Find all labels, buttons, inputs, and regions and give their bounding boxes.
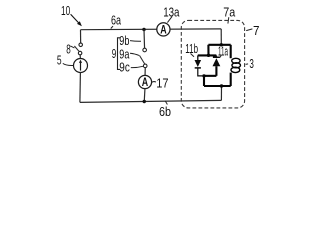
leader 9b [130,40,141,43]
bracket 9 [118,38,121,70]
dashed enclosure box 7 [181,20,244,108]
svg-text:10: 10 [61,3,70,18]
diode 11b cathode bar [195,67,201,69]
coil 3 loop 1 [232,58,240,63]
node D3 [202,74,205,77]
node D4 [220,84,223,87]
leader 9c [131,66,143,67]
module bottom drop [203,76,205,86]
wire bottom 6b [80,100,222,102]
module left drop [207,45,209,56]
svg-text:9c: 9c [119,59,130,74]
wire left vertical upper [80,30,82,43]
coil 3 loop 3 [231,67,240,72]
leader 8 [70,46,74,48]
diode 11a triangle [213,58,221,66]
ammeter 17 [138,75,151,89]
coil 3 loop 2 [232,63,241,68]
leader 11a [220,55,222,57]
leader 11b [191,54,195,57]
svg-text:3: 3 [249,56,254,71]
diode 11a cathode bar [213,56,220,58]
svg-text:6a: 6a [111,12,122,27]
node D1 [220,43,223,46]
svg-text:7a: 7a [223,4,236,19]
coil riser bottom [230,73,232,86]
svg-text:5: 5 [57,52,62,67]
leader 3 [246,63,249,66]
diode pair bottom bar [203,75,217,77]
diode 11b anode lead [197,55,199,60]
svg-text:9: 9 [112,46,117,61]
diode 11b triangle [195,60,202,67]
svg-text:17: 17 [156,75,168,90]
module bottom bar [204,85,231,87]
node bottom junction [143,100,146,103]
switch S8 blade [74,46,79,51]
diode 11a anode lead [215,66,217,76]
ammeter 13a [157,23,170,37]
switch S9 blade 9a [140,56,145,65]
svg-text:6b: 6b [159,104,171,119]
wire top 6a [81,28,222,31]
wire riser to module bottom [220,86,222,100]
diode pair top bar [198,54,217,56]
diode 11b cathode lead [198,68,203,76]
leader 7 [246,29,252,31]
current source 5 arrow [80,62,82,70]
svg-text:7: 7 [253,23,260,38]
module top bar [208,44,230,46]
module right riser [230,45,232,58]
leader 6a [111,26,113,28]
switch S9 terminal top 9b [143,48,147,52]
svg-text:A: A [160,24,166,36]
switch S8 terminal top [79,43,83,47]
wire ammeter 17 to bottom [143,89,146,102]
svg-text:8: 8 [66,41,71,56]
current source 5 circle [74,59,88,73]
diode 11a cathode link [215,55,217,57]
wire switch to source [79,55,81,59]
node top junction [142,28,145,31]
wire middle branch upper [143,30,146,49]
leader 17 [152,81,156,84]
switch S9 terminal bottom 9c [143,64,147,68]
leader 9a [130,53,139,55]
svg-text:A: A [142,77,148,89]
switch S8 terminal bottom [78,51,82,55]
node D2 [207,54,210,57]
arrow for 10 [71,14,79,23]
leader 5 [63,63,74,65]
svg-text:11b: 11b [185,41,198,56]
svg-text:11a: 11a [218,44,228,59]
leader 13a [167,16,172,22]
leader 7a [227,17,230,23]
leader 6b [165,101,167,105]
wire source to bottom [79,73,82,103]
wire switch to ammeter 17 [144,68,146,76]
wire top turn down into module [220,29,222,45]
